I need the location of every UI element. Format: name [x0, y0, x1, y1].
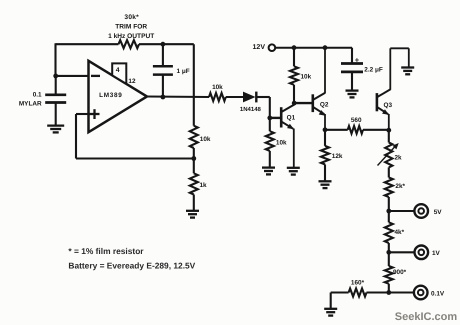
- svg-text:12V: 12V: [253, 44, 266, 51]
- svg-text:LM389: LM389: [99, 92, 122, 99]
- svg-text:+: +: [355, 55, 360, 64]
- svg-text:0.1: 0.1: [33, 92, 42, 99]
- svg-text:10k: 10k: [301, 74, 312, 81]
- svg-text:4k*: 4k*: [395, 229, 405, 236]
- svg-text:TRIM FOR: TRIM FOR: [115, 24, 147, 31]
- svg-text:1 μF: 1 μF: [177, 68, 190, 75]
- svg-text:12k: 12k: [332, 153, 343, 160]
- svg-text:Q3: Q3: [384, 102, 393, 109]
- svg-text:Battery = Eveready E-289, 12.5: Battery = Eveready E-289, 12.5V: [68, 260, 195, 270]
- svg-text:0.1V: 0.1V: [431, 291, 445, 298]
- svg-text:SeekIC.com: SeekIC.com: [395, 311, 458, 323]
- svg-text:MYLAR: MYLAR: [19, 100, 42, 107]
- svg-text:5V: 5V: [434, 209, 443, 216]
- svg-text:10k: 10k: [212, 84, 223, 91]
- svg-text:4: 4: [116, 67, 120, 74]
- svg-text:2k: 2k: [395, 154, 403, 161]
- svg-text:2k*: 2k*: [395, 183, 405, 190]
- svg-text:12: 12: [128, 78, 136, 85]
- svg-text:160*: 160*: [351, 280, 365, 287]
- svg-text:1 kHz OUTPUT: 1 kHz OUTPUT: [108, 33, 154, 40]
- svg-text:1V: 1V: [432, 250, 441, 257]
- svg-text:* = 1% film resistor: * = 1% film resistor: [68, 246, 144, 256]
- svg-text:30k*: 30k*: [124, 14, 139, 21]
- svg-text:2.2 μF: 2.2 μF: [364, 66, 383, 73]
- svg-text:10k: 10k: [276, 139, 287, 146]
- svg-text:1N4148: 1N4148: [240, 106, 262, 113]
- svg-text:900*: 900*: [393, 269, 407, 276]
- svg-text:560: 560: [351, 117, 362, 124]
- svg-text:1k: 1k: [200, 182, 208, 189]
- svg-text:Q1: Q1: [287, 114, 296, 121]
- svg-text:10k: 10k: [200, 136, 211, 143]
- svg-text:Q2: Q2: [320, 101, 329, 108]
